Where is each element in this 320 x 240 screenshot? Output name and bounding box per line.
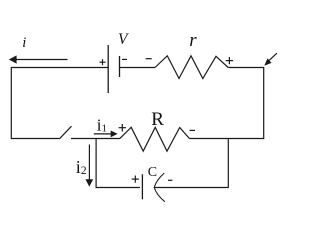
wire switch to resistor R	[71, 138, 120, 140]
wire right vertical	[263, 67, 265, 139]
capacitor C left plate	[141, 174, 143, 199]
node - (resistor R right polarity)	[190, 129, 196, 131]
node + (resistor R left polarity)	[119, 124, 126, 132]
svg-text:r: r	[189, 30, 197, 51]
wire middle-left horizontal	[11, 138, 60, 140]
node + (capacitor positive)	[132, 176, 139, 183]
svg-text:i: i	[22, 35, 26, 51]
switch blade	[60, 126, 72, 138]
node + (battery positive terminal)	[100, 59, 106, 65]
wire bottom-left horizontal to capacitor	[96, 187, 141, 189]
current arrow i1 (pointing right)	[94, 131, 118, 138]
wire junction vertical (i2 branch)	[95, 139, 97, 188]
current arrow i (pointing left)	[9, 55, 68, 63]
svg-text:i1: i1	[97, 115, 107, 134]
battery V long plate	[107, 45, 109, 93]
wire battery to resistor r	[120, 67, 156, 69]
resistor R	[120, 127, 189, 151]
battery V short plate	[119, 56, 121, 77]
node + (resistor r right polarity)	[226, 57, 233, 64]
node - (resistor r left polarity)	[146, 58, 152, 60]
svg-text:V: V	[118, 31, 129, 48]
wire left vertical	[10, 67, 12, 139]
current arrow into top-right corner (diagonal)	[264, 53, 277, 65]
resistor r	[155, 56, 228, 79]
svg-text:R: R	[151, 109, 164, 130]
node - (capacitor negative)	[168, 179, 172, 181]
current arrow i2 (pointing down)	[85, 145, 93, 187]
capacitor C curved plate	[154, 173, 165, 202]
svg-text:i2: i2	[76, 157, 87, 177]
wire resistor r to top-right corner	[228, 67, 264, 69]
wire bottom-right vertical junction	[227, 139, 229, 188]
svg-text:C: C	[148, 165, 157, 180]
wire top-left horizontal	[11, 67, 108, 69]
node - (battery negative terminal)	[122, 58, 127, 60]
wire capacitor to bottom-right corner	[154, 187, 228, 189]
wire resistor R to right vertical	[189, 138, 263, 140]
